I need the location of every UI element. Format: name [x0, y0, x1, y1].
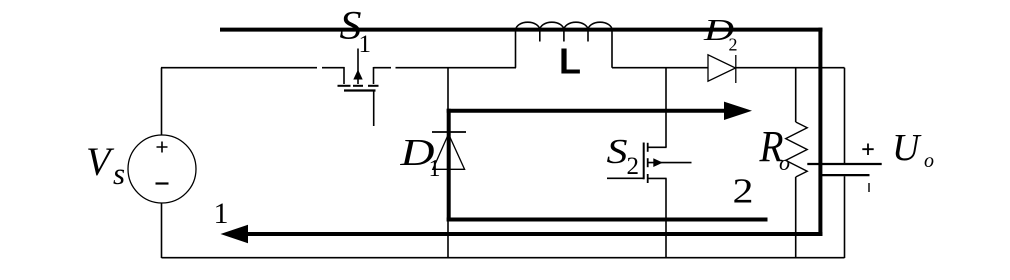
loop 2 thick arrow: top shaft — [447, 109, 725, 113]
loop 1 thick arrow: right vertical — [818, 28, 822, 236]
resistor Ro zigzag — [786, 122, 808, 177]
capacitor branch top wire — [844, 68, 846, 163]
capacitor bottom wire — [844, 176, 846, 258]
voltage source Vs circle — [128, 135, 196, 203]
S2 gate bar — [643, 143, 645, 180]
S2 source wire — [665, 178, 667, 258]
Vs minus sign — [156, 182, 169, 184]
loop 2 thick arrow: bottom line — [447, 218, 768, 222]
S1 body lead — [357, 49, 359, 85]
inductor L junction hooks — [540, 31, 588, 42]
S1 drain drop — [343, 67, 345, 84]
S2 body tick — [647, 158, 649, 167]
loop 1 thick arrow: bottom shaft — [247, 232, 822, 236]
capacitor plus polarity — [862, 144, 873, 156]
diode D1 triangle — [433, 134, 465, 169]
inductor L coils — [516, 22, 612, 30]
svg-text:2: 2 — [729, 34, 738, 54]
inductor L terminals — [516, 31, 613, 68]
S1 body tick — [353, 85, 363, 87]
S2 drain tick — [647, 143, 649, 152]
S2 body arrow — [653, 158, 663, 167]
loop 2 thick arrow: left vertical — [447, 109, 451, 222]
capacitor top plate — [807, 163, 881, 165]
S2 body lead — [648, 162, 692, 164]
diode D2 (triangle + cathode bar) — [708, 55, 736, 81]
capacitor bottom plate — [821, 174, 869, 176]
S1 source drop — [373, 67, 375, 84]
svg-text:2: 2 — [627, 153, 640, 180]
wire: rail S1 to inductor — [374, 67, 517, 69]
svg-text:o: o — [779, 150, 790, 175]
wire: Vs top lead — [161, 68, 163, 135]
S1 gate lead — [373, 92, 375, 127]
svg-text:U: U — [892, 127, 922, 169]
svg-text:S: S — [607, 132, 628, 171]
wire: rail inductor to D2 — [612, 67, 708, 69]
svg-text:1: 1 — [429, 156, 441, 182]
S2 source tick — [647, 174, 649, 183]
S1 drain tick — [338, 85, 351, 87]
resistor Ro bottom lead — [795, 177, 797, 258]
svg-text:2: 2 — [733, 172, 754, 211]
svg-text:1: 1 — [359, 31, 372, 58]
loop 2 arrowhead (points right) — [724, 102, 752, 120]
loop 1 thick arrow: top line — [220, 28, 822, 32]
S1 source tick — [368, 85, 379, 87]
svg-text:1: 1 — [214, 197, 229, 230]
S2 source stub — [648, 177, 667, 179]
S2 gate lead — [607, 177, 644, 179]
diode D1 branch vertical wire — [447, 68, 449, 258]
wire: Vs bottom lead — [161, 203, 163, 258]
capacitor minus polarity tick — [868, 183, 870, 192]
transistor S1 (MOSFET) — [338, 49, 379, 127]
wire: bottom rail — [162, 257, 845, 259]
svg-text:o: o — [924, 150, 934, 172]
S1 gate bar — [344, 89, 376, 91]
S2 drain wire — [665, 68, 667, 148]
loop 1 arrowhead (points left) — [221, 225, 249, 243]
wire: top rail left segment — [161, 67, 345, 69]
Vs plus sign — [157, 142, 168, 153]
wire: rail D2 to right branch — [736, 67, 845, 69]
S1 body arrow — [353, 70, 362, 80]
svg-text:s: s — [113, 156, 125, 191]
svg-text:L: L — [559, 41, 581, 82]
transistor S2 (MOSFET) — [607, 68, 692, 258]
resistor Ro lead from rail — [795, 68, 797, 122]
diode D1 cathode bar — [432, 131, 466, 133]
S2 drain stub — [648, 146, 667, 148]
